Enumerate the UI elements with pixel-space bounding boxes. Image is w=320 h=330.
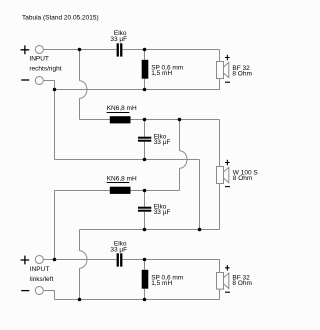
svg-text:1,5 mH: 1,5 mH (151, 70, 172, 77)
svg-text:KN6,8 mH: KN6,8 mH (107, 176, 137, 183)
svg-text:Tabula (Stand 20.05.2015): Tabula (Stand 20.05.2015) (22, 15, 99, 22)
svg-text:8 Ohm: 8 Ohm (232, 70, 252, 77)
svg-text:33 µF: 33 µF (154, 139, 171, 146)
svg-text:33 µF: 33 µF (154, 209, 171, 216)
svg-text:1,5 mH: 1,5 mH (151, 280, 172, 287)
svg-text:links/left: links/left (30, 276, 54, 283)
svg-text:INPUT: INPUT (29, 56, 49, 63)
svg-text:8 Ohm: 8 Ohm (233, 175, 253, 182)
svg-text:rechts/right: rechts/right (29, 66, 61, 73)
svg-text:KN6,8 mH: KN6,8 mH (107, 105, 137, 112)
svg-text:8 Ohm: 8 Ohm (232, 280, 252, 287)
svg-text:33 µF: 33 µF (110, 247, 127, 254)
svg-text:INPUT: INPUT (30, 266, 50, 273)
svg-text:33 µF: 33 µF (110, 36, 127, 43)
